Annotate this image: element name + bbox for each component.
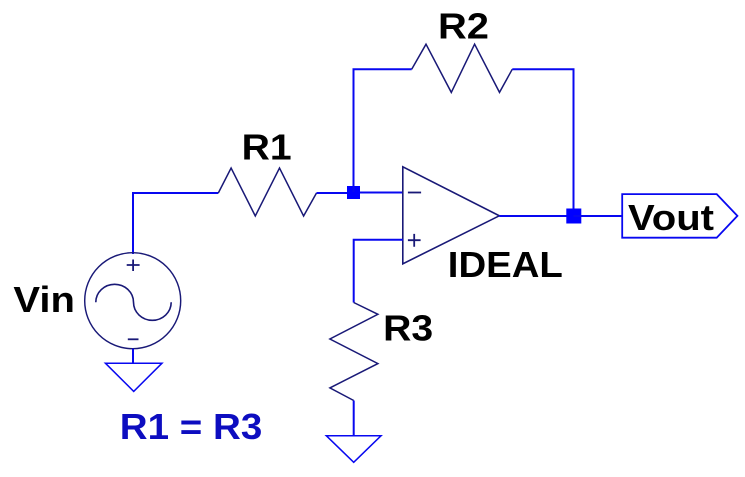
wire: R1 right to inverting node <box>317 192 354 194</box>
annotation R1 = R3 <box>120 406 262 447</box>
wire: output node to Vout flag <box>574 215 623 217</box>
label R1 <box>242 127 292 168</box>
net flag Vout <box>622 194 737 238</box>
svg-text:IDEAL: IDEAL <box>448 244 563 285</box>
svg-text:Vout: Vout <box>628 197 714 238</box>
svg-text:R3: R3 <box>383 308 433 349</box>
svg-text:Vin: Vin <box>13 279 75 320</box>
op-amp U1 <box>403 167 500 264</box>
svg-text:R1: R1 <box>242 127 292 168</box>
label R2 <box>438 6 489 47</box>
resistor R1 <box>218 168 316 216</box>
wire: op-amp plus input to R3 top <box>354 240 403 303</box>
voltage source Vin <box>85 253 181 349</box>
label Vin <box>13 279 75 320</box>
ground under R3 <box>326 436 381 463</box>
label R3 <box>383 308 433 349</box>
wire: Vin bottom to ground <box>132 349 134 364</box>
wire: op-amp output to output node <box>499 215 573 217</box>
label IDEAL <box>448 244 563 285</box>
wire: R3 bottom to ground <box>353 401 355 436</box>
wire: Vin top to R1 left <box>133 193 218 254</box>
resistor R3 <box>330 303 378 401</box>
resistor R2 <box>412 44 513 92</box>
junction: output node <box>566 209 581 224</box>
wire: feedback branch up from inverting node <box>354 69 412 192</box>
wire: R2 right down to output node <box>512 69 573 216</box>
ground under Vin <box>105 363 162 391</box>
wire: inverting node to op-amp minus input <box>354 192 403 194</box>
junction: inverting input node <box>347 186 360 199</box>
svg-text:R1 = R3: R1 = R3 <box>120 406 262 447</box>
svg-text:R2: R2 <box>438 6 489 47</box>
